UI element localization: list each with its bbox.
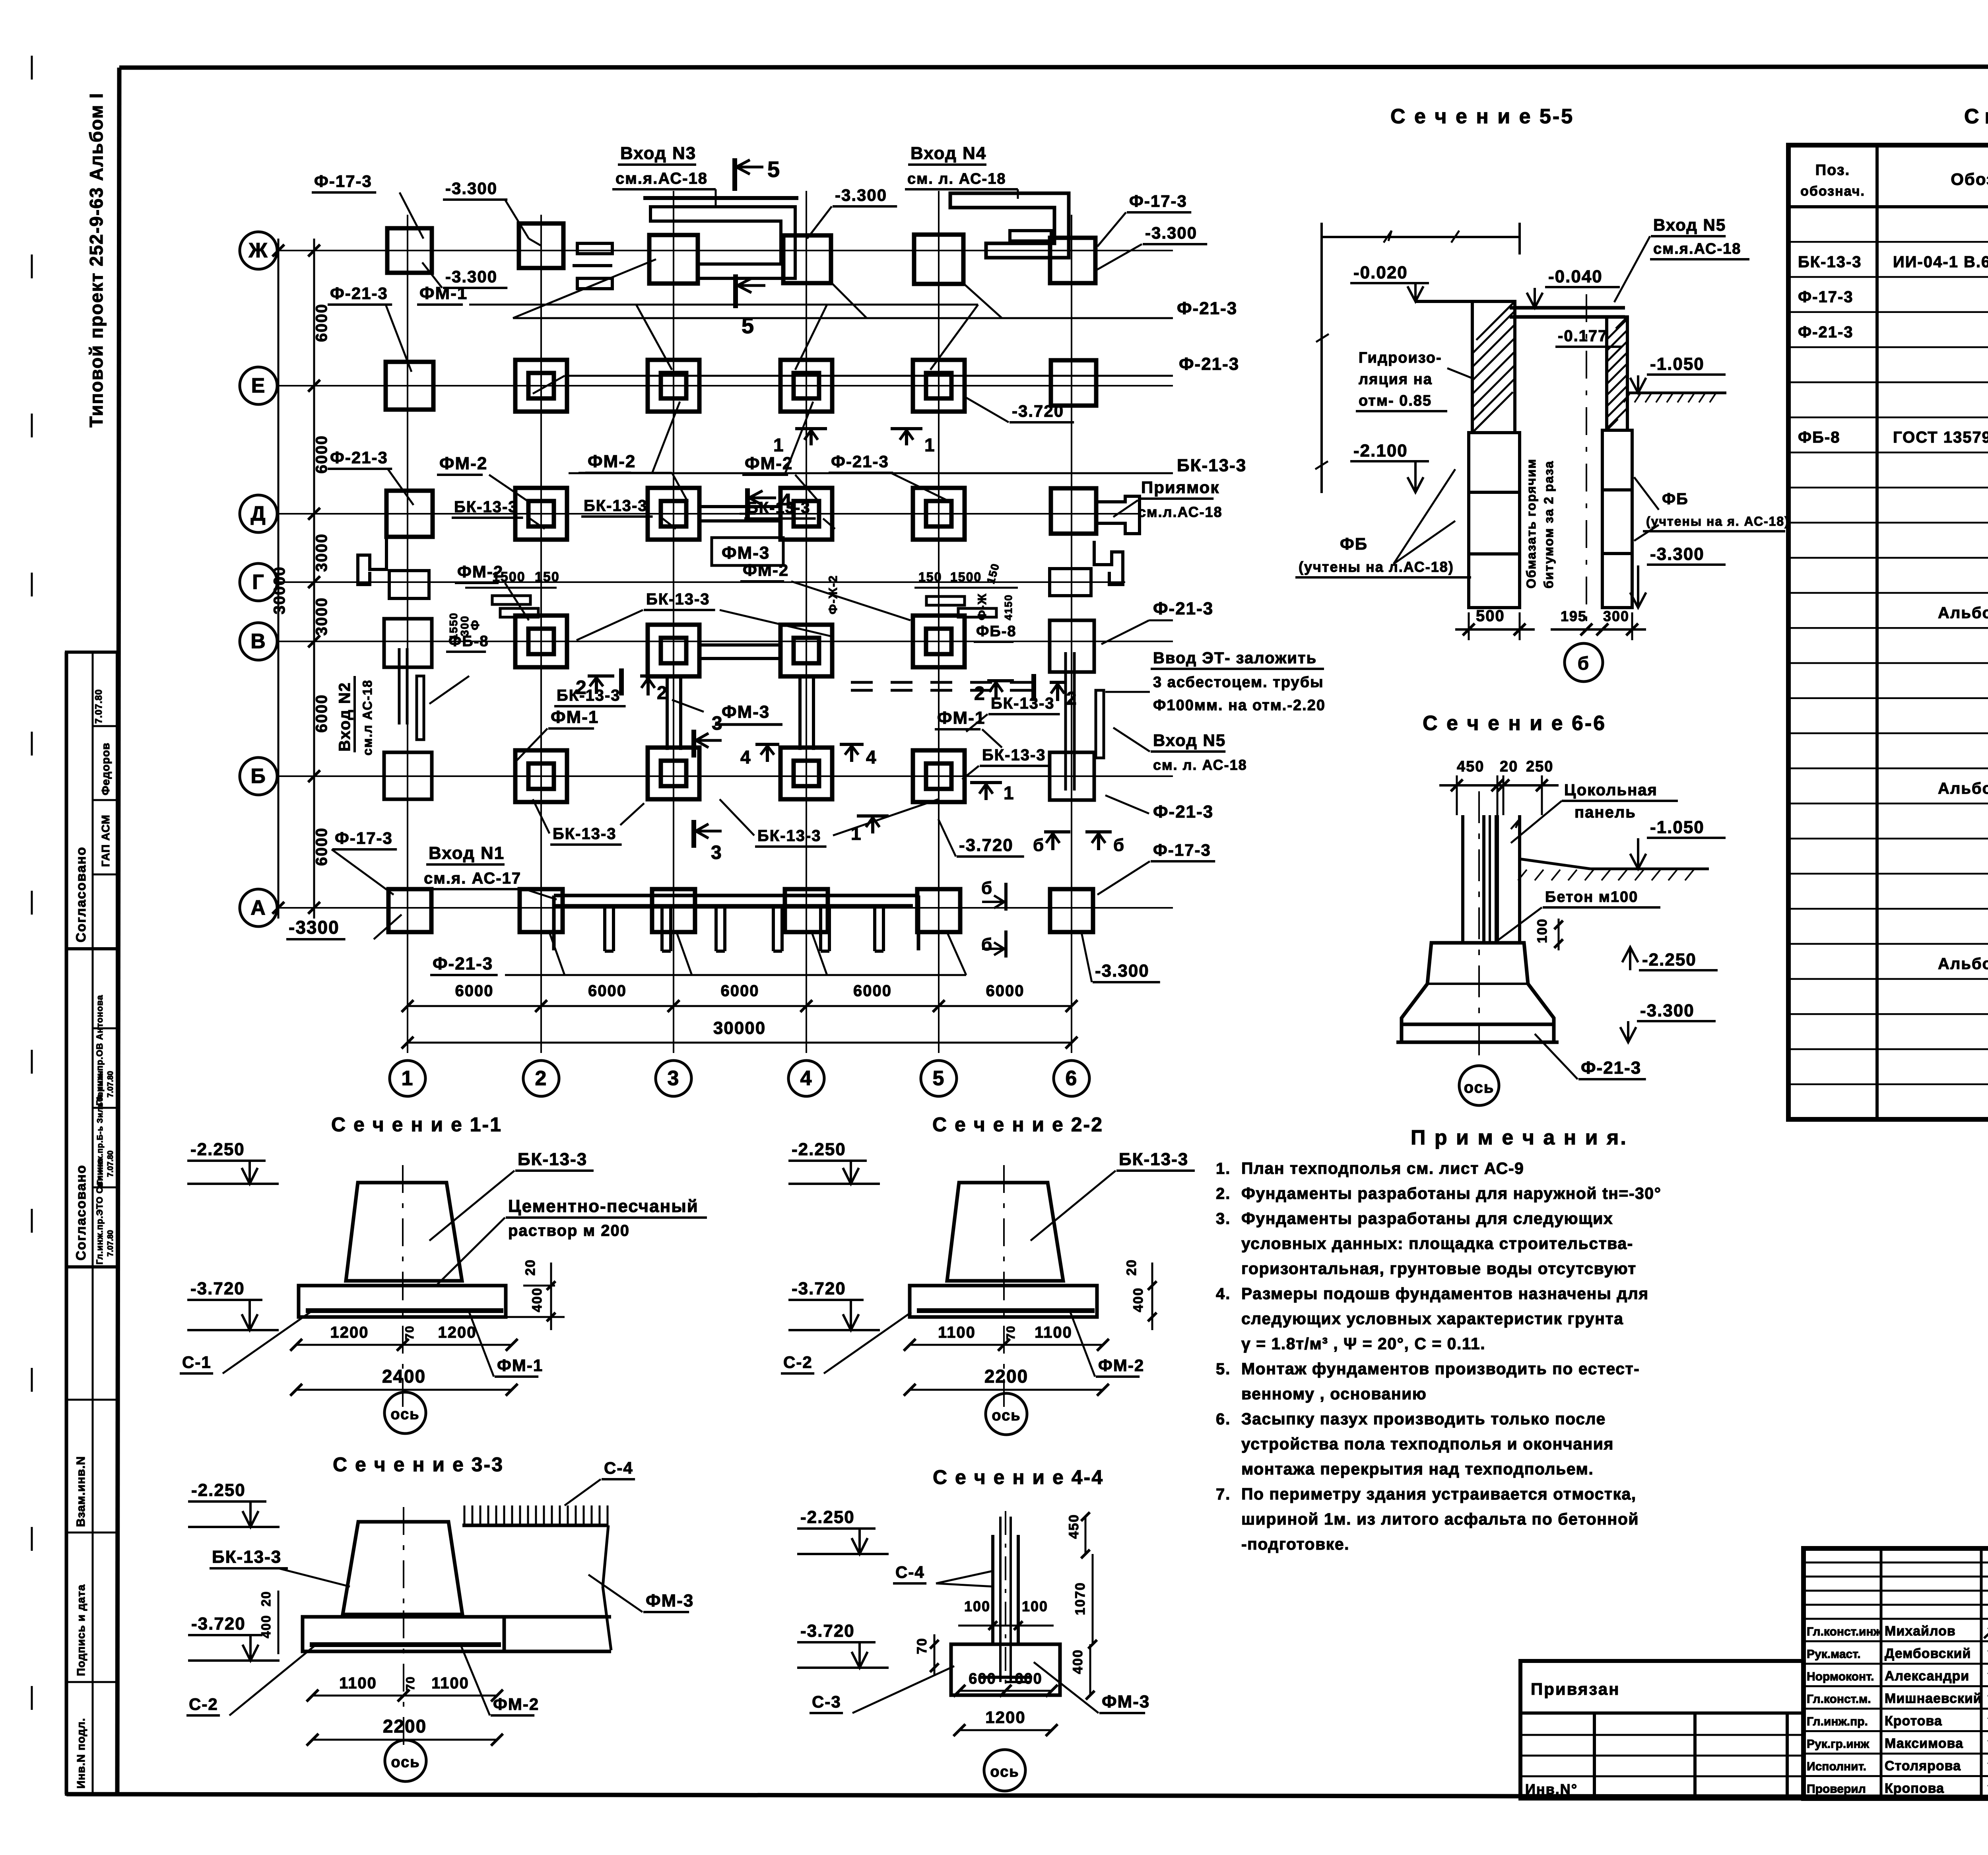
svg-text:С-1: С-1: [182, 1353, 212, 1371]
section 5-5 right wall blocks: [1602, 430, 1632, 608]
section 5-5 left wall hatched: [1472, 301, 1515, 433]
svg-text:ГОСТ 13579-78: ГОСТ 13579-78: [1893, 429, 1988, 446]
svg-text:см. л. АС-18: см. л. АС-18: [907, 171, 1006, 187]
svg-text:Кротова: Кротова: [1885, 1713, 1942, 1729]
svg-text:-2.250: -2.250: [191, 1480, 246, 1500]
entrance footing at 6/Б: [1050, 752, 1094, 800]
svg-text:Инв.N°: Инв.N°: [1525, 1781, 1578, 1797]
svg-text:условных данных: площадка стро: условных данных: площадка строительства-: [1241, 1234, 1633, 1253]
bottom total dimension 30000: [402, 1018, 1077, 1049]
svg-text:-3.300: -3.300: [1145, 223, 1197, 242]
section 2-2 level -2.250: [788, 1140, 880, 1184]
svg-text:Ф-21-3: Ф-21-3: [1177, 299, 1237, 318]
notes title Примечания: [1411, 1126, 1628, 1149]
boxed label ФМ-3 upper: [712, 538, 783, 565]
footing Ф-21-3 row А: [1050, 889, 1093, 932]
axis circle 4: [788, 1061, 824, 1096]
svg-text:Инв.N подл.: Инв.N подл.: [75, 1718, 87, 1789]
section 1-1 axis circle: [384, 1392, 426, 1433]
svg-text:ляция на: ляция на: [1359, 371, 1433, 388]
label Цокольная панель: [1511, 781, 1678, 843]
svg-text:-1.050: -1.050: [1650, 354, 1705, 374]
svg-text:450: 450: [1457, 758, 1484, 775]
label ФМ-1 left row Б: [517, 707, 599, 760]
svg-text:1200: 1200: [438, 1324, 477, 1341]
entrance footing at 6/В: [1050, 620, 1104, 791]
section 1-1 right small dims 20 400: [507, 1259, 565, 1330]
label Вход N5 см.л.АС-18 top right: [1614, 216, 1749, 302]
svg-text:По периметру здания устраивает: По периметру здания устраивается отмостк…: [1241, 1485, 1637, 1503]
label Инв.N: [1525, 1781, 1578, 1797]
label БК-13-3 b: [581, 497, 676, 529]
label -3.720 bottom: [938, 819, 1024, 857]
label Гидроизоляция: [1356, 350, 1471, 411]
section 6-6 top dims 450 20 250: [1439, 758, 1559, 815]
monolithic footing ФМ-1 row Е: [780, 360, 832, 412]
svg-text:Столярова: Столярова: [1885, 1758, 1961, 1773]
svg-text:Ф-21-3: Ф-21-3: [1179, 354, 1239, 374]
svg-text:1100: 1100: [1035, 1324, 1072, 1341]
label -2.100: [1350, 441, 1429, 492]
section 6-6 wall panel: [1463, 815, 1520, 944]
svg-text:С-4: С-4: [895, 1563, 925, 1581]
svg-text:Обозначение: Обозначение: [1951, 170, 1988, 188]
section 4-4 dim 1200: [953, 1708, 1058, 1736]
svg-text:Вход N3: Вход N3: [620, 144, 696, 163]
section 1-1 footing slab ФМ-1: [299, 1272, 506, 1416]
title block signature grid: [1804, 1548, 1988, 1799]
svg-text:Спецификация элементов: Спецификация элементов: [1964, 105, 1988, 128]
section 3-3 label С-2: [186, 1646, 314, 1715]
label Вход N5 right: [1113, 728, 1247, 773]
svg-text:-3.720: -3.720: [792, 1279, 846, 1298]
section cut mark 5 lower: [736, 274, 765, 338]
section 1-1 level -3.720: [187, 1279, 279, 1330]
rotated small label Ф-Ж-2 near col5: [976, 593, 989, 620]
label БК-13-3 under right mark 2: [0, 0, 0, 0]
svg-text:Цементно-песчаный: Цементно-песчаный: [508, 1197, 699, 1216]
svg-text:ФМ-3: ФМ-3: [722, 702, 770, 722]
monolithic footing ФМ-1 row Е: [648, 360, 699, 412]
electric duct dashed line Ввод ЭТ: [851, 682, 1046, 690]
label -3.300 section5: [1630, 544, 1726, 608]
svg-text:БК-13-3: БК-13-3: [646, 590, 710, 608]
section 3-3 label С-4: [565, 1459, 635, 1505]
section 5-5 title: [1390, 105, 1574, 128]
svg-text:Взам.инв.N: Взам.инв.N: [74, 1456, 87, 1527]
section 4-4 dims 100 100: [958, 1598, 1054, 1630]
svg-text:150: 150: [535, 569, 560, 585]
svg-text:С е ч е н и е 3-3: С е ч е н и е 3-3: [333, 1453, 504, 1476]
label Привязан: [1531, 1680, 1620, 1698]
svg-text:Приямок: Приямок: [1141, 478, 1219, 497]
svg-text:20: 20: [259, 1591, 273, 1606]
label БК-13-3 under ФМ-1 left: [533, 799, 644, 845]
svg-text:ФМ-2: ФМ-2: [493, 1695, 539, 1713]
svg-text:1.: 1.: [1216, 1160, 1231, 1177]
section marks б bottom: [1033, 832, 1125, 855]
svg-text:1100: 1100: [938, 1324, 976, 1341]
svg-text:Бетон м100: Бетон м100: [1545, 889, 1638, 905]
svg-text:б: б: [1113, 835, 1125, 855]
section 2-2 title: [932, 1113, 1103, 1136]
svg-text:-3.720: -3.720: [800, 1621, 855, 1641]
svg-text:б: б: [1578, 653, 1590, 674]
svg-text:следующих условных характерист: следующих условных характеристик грунта: [1241, 1309, 1623, 1328]
entrance Вход N4 stair outline: [950, 193, 1069, 258]
label Ф-21-3 band1: [328, 448, 414, 505]
monolithic footing at 2/В: [515, 616, 567, 667]
svg-text:-3.720: -3.720: [190, 1279, 245, 1298]
label БК-13-3 under mark 2: [554, 687, 626, 706]
svg-text:ФМ-2: ФМ-2: [1098, 1356, 1144, 1375]
svg-text:1100: 1100: [339, 1674, 377, 1692]
section 5-5 ground line right: [1624, 393, 1726, 402]
footing at 6/Е: [1051, 360, 1096, 406]
footing at 5/Ж left: [914, 235, 963, 284]
svg-text:Размеры подошв фундаментов наз: Размеры подошв фундаментов назначены для: [1241, 1284, 1649, 1303]
monolithic footing ФМ-2 at 5/Д: [913, 488, 965, 540]
svg-text:1200: 1200: [330, 1324, 369, 1341]
svg-text:-0.040: -0.040: [1548, 267, 1603, 286]
entrance Вход N1 comb outline: [554, 895, 918, 951]
svg-text:3 асбестоцем. трубы: 3 асбестоцем. трубы: [1153, 674, 1324, 691]
label Вход N2 см.л АС-18 (rotated): [336, 676, 375, 756]
section 4-4 dim 70 rotated: [914, 1634, 939, 1676]
svg-text:5.: 5.: [1216, 1360, 1231, 1378]
section 4-4 label С-4: [893, 1563, 994, 1587]
plan column grid lines 1-6: [408, 191, 1072, 1053]
svg-text:Ф-21-3: Ф-21-3: [1153, 802, 1213, 822]
svg-text:-2.250: -2.250: [1642, 950, 1697, 969]
section mark 4 upper: [747, 488, 792, 521]
svg-text:Рук.маст.: Рук.маст.: [1807, 1648, 1861, 1661]
specification table frame: [1788, 145, 1988, 1119]
section 6-6 axis circle: [1459, 1066, 1499, 1105]
svg-text:4: 4: [866, 747, 877, 767]
svg-text:ось: ось: [390, 1406, 419, 1423]
axis circle Д: [240, 495, 277, 532]
svg-text:2.: 2.: [1216, 1185, 1231, 1202]
svg-text:5: 5: [742, 313, 755, 338]
svg-text:венному , основанию: венному , основанию: [1241, 1385, 1427, 1403]
svg-text:400: 400: [530, 1287, 545, 1312]
section 1-1 title: [331, 1113, 502, 1136]
svg-text:Ф-17-3: Ф-17-3: [1153, 841, 1211, 859]
svg-text:ФМ-2: ФМ-2: [457, 562, 503, 581]
section 5-5 left vertical dim line: [1315, 237, 1329, 493]
svg-text:Исполнит.: Исполнит.: [1807, 1760, 1866, 1773]
svg-text:б: б: [1033, 835, 1044, 855]
svg-text:БК-13-3: БК-13-3: [1119, 1150, 1188, 1169]
label Приямок см.л.АС-18: [1113, 478, 1223, 523]
svg-text:устройства пола техподполья и: устройства пола техподполья и окончания: [1241, 1435, 1614, 1453]
label -3.300 below 1/Ж: [422, 262, 507, 288]
svg-text:ФМ-3: ФМ-3: [1102, 1692, 1150, 1711]
specification table header texts: [1800, 162, 1988, 199]
label ФМ-2 b: [579, 452, 688, 502]
section 1-1 label С-1: [180, 1312, 310, 1373]
svg-text:70: 70: [914, 1637, 930, 1654]
svg-text:Согласовано: Согласовано: [74, 1165, 89, 1261]
specification table title: [1964, 105, 1988, 128]
svg-text:ФМ-1: ФМ-1: [497, 1356, 543, 1375]
svg-text:Вход N5: Вход N5: [1153, 731, 1226, 750]
svg-text:2: 2: [1066, 688, 1077, 709]
section 1-1 label Цементно-песчаный раствор: [437, 1197, 707, 1284]
svg-text:Федоров: Федоров: [99, 742, 112, 795]
svg-text:-2.250: -2.250: [800, 1507, 855, 1527]
svg-text:6000: 6000: [588, 982, 627, 1000]
svg-text:-3.300: -3.300: [445, 267, 497, 286]
left dimension line 6000/6000/3000/3000/6000/6000: [271, 239, 330, 919]
svg-text:см.я.АС-18: см.я.АС-18: [615, 170, 708, 187]
svg-text:4: 4: [800, 1067, 813, 1090]
label -3300 left bottom: [286, 915, 402, 939]
title block outer frame: [1804, 1548, 1988, 1799]
section 2-2 label С-2: [781, 1312, 911, 1373]
blocks ФБ-8 left: [447, 569, 560, 640]
svg-text:7.07.80: 7.07.80: [106, 1071, 115, 1097]
section marks 4 bottom pair: [740, 744, 877, 767]
svg-text:-3.300: -3.300: [1650, 544, 1705, 564]
svg-text:3: 3: [711, 842, 722, 863]
svg-text:ось: ось: [391, 1754, 420, 1771]
label БК-13-3 right long leader: [569, 402, 1246, 475]
label БК-13-3 band2 right: [966, 695, 1060, 732]
monolithic footing ФМ-2 at 2/Д: [515, 488, 567, 540]
label -3.720 near 5/Е: [966, 398, 1074, 422]
svg-text:100: 100: [1022, 1598, 1048, 1614]
section mark 2 right pair: [974, 674, 1077, 709]
axis circle 1: [390, 1061, 425, 1096]
svg-text:2200: 2200: [383, 1716, 427, 1737]
svg-text:3: 3: [668, 1067, 680, 1090]
svg-text:(учтены на л.АС-18): (учтены на л.АС-18): [1299, 559, 1454, 575]
svg-text:400: 400: [259, 1615, 273, 1638]
monolithic footing ФМ-2 at 4/Д: [780, 488, 832, 540]
svg-text:раствор м 200: раствор м 200: [508, 1222, 630, 1239]
rotated small label Ф-Ж-2 near col3: [827, 575, 840, 614]
label БК-13-3 right row Б: [962, 746, 1051, 779]
label -3.300 top-left: [443, 179, 541, 246]
label -0.177: [1555, 327, 1622, 347]
label ФМ-1 with long leader row Е: [417, 284, 978, 370]
svg-text:4: 4: [740, 747, 751, 767]
svg-text:Дембовский: Дембовский: [1885, 1646, 1971, 1661]
svg-text:Вход N5: Вход N5: [1653, 216, 1726, 234]
svg-text:С-2: С-2: [189, 1695, 218, 1713]
svg-text:Гидроизо-: Гидроизо-: [1359, 350, 1442, 366]
label Ф-17-3 bottom right: [1097, 841, 1215, 895]
label ФБ-8 right: [974, 623, 1017, 642]
label ФМ-2 a: [437, 454, 529, 502]
label Вход N4 см.л.АС-18: [905, 144, 1018, 199]
svg-text:Ф-21-3: Ф-21-3: [433, 954, 493, 973]
svg-text:панель: панель: [1574, 804, 1636, 821]
svg-text:6000: 6000: [455, 982, 494, 1000]
label БК-13-3 mid bottom: [720, 799, 938, 847]
svg-text:см.я.АС-18: см.я.АС-18: [1653, 241, 1741, 257]
svg-text:-3.300: -3.300: [1095, 961, 1149, 981]
svg-text:ФМ-2: ФМ-2: [439, 454, 487, 473]
axis circle 5: [921, 1061, 957, 1096]
section 4-4 dim 450 rotated: [1066, 1512, 1097, 1558]
svg-text:4150: 4150: [1002, 594, 1014, 620]
footing Ф-17-3 at 1/Ж: [387, 228, 432, 273]
svg-text:Рук.гр.инж: Рук.гр.инж: [1807, 1738, 1870, 1751]
axis circle В: [240, 623, 277, 660]
svg-text:ФМ-3: ФМ-3: [646, 1591, 694, 1610]
section 6-6 pedestal: [1396, 943, 1559, 1042]
label Бетон м100: [1495, 889, 1660, 942]
axis circle Ж: [240, 232, 277, 269]
label -3.300 mid top: [807, 186, 897, 239]
label ФМ-2 c: [742, 454, 819, 502]
svg-text:-1.050: -1.050: [1650, 818, 1705, 837]
footing Ф-21-3 row А: [520, 889, 563, 932]
label Вход N3 см.л.АС-18: [612, 144, 716, 207]
svg-text:-3.720: -3.720: [1012, 402, 1064, 420]
section 5-5 axis dashed: [1586, 294, 1587, 628]
section 1-1 level -2.250: [187, 1140, 279, 1184]
section 4-4 dim 400 rotated: [1070, 1644, 1095, 1700]
axis circle Б: [240, 758, 277, 795]
svg-text:Мишнаевский: Мишнаевский: [1885, 1691, 1982, 1706]
section 1-1 label БК-13-3: [429, 1150, 594, 1241]
svg-text:3.: 3.: [1216, 1210, 1231, 1228]
beam ФМ-3 between 3/Д and 4/Д: [700, 507, 780, 521]
svg-text:С е ч е н и е 6-6: С е ч е н и е 6-6: [1423, 712, 1606, 735]
label Вход N1 см.л.АС-17: [421, 843, 557, 899]
section 4-4 dim 600 600: [953, 1670, 1058, 1697]
link bar 3/В-4/В: [701, 645, 779, 658]
title block Привязан table: [1520, 1661, 1804, 1799]
svg-text:ось: ось: [992, 1407, 1021, 1424]
svg-text:2: 2: [974, 683, 986, 704]
svg-text:Альбом V Р.9.8-1: Альбом V Р.9.8-1: [1938, 955, 1988, 973]
svg-text:6000: 6000: [313, 303, 330, 342]
footing Ф-21-3 row А: [652, 889, 695, 932]
svg-text:20: 20: [523, 1259, 538, 1276]
svg-text:С-2: С-2: [783, 1353, 813, 1371]
svg-text:обознач.: обознач.: [1800, 184, 1865, 199]
svg-text:-3.300: -3.300: [835, 186, 887, 204]
svg-text:БК-13-3: БК-13-3: [518, 1150, 587, 1169]
label -0.040: [1527, 267, 1620, 308]
svg-text:6000: 6000: [313, 827, 330, 866]
svg-text:5: 5: [767, 157, 780, 182]
svg-text:Кропова: Кропова: [1885, 1781, 1944, 1796]
axis circle А: [240, 889, 277, 927]
svg-text:-3.720: -3.720: [959, 835, 1013, 855]
svg-text:-2.250: -2.250: [792, 1140, 846, 1159]
footing Ф-21-3 row А: [785, 889, 828, 932]
left stamp box 3 (Взам.инв / Подпись и дата / Инв.N подл.): [66, 1267, 117, 1794]
label Ф-21-3 band1 right: [829, 452, 950, 502]
svg-text:С е ч е н и е 1-1: С е ч е н и е 1-1: [331, 1113, 502, 1136]
footing at 1/Д: [386, 491, 433, 537]
svg-text:БК-13-3: БК-13-3: [1798, 253, 1862, 271]
svg-text:2: 2: [657, 682, 668, 703]
svg-text:500: 500: [1476, 607, 1505, 625]
label -1.050: [1630, 354, 1726, 393]
svg-text:Фундаменты разработаны для нар: Фундаменты разработаны для наружной tн=-…: [1241, 1184, 1662, 1202]
svg-text:-3.720: -3.720: [191, 1614, 246, 1634]
section 5-5 slab right -0.040: [1510, 308, 1625, 317]
label Обмазать горячим битумом (rotated): [1524, 453, 1556, 589]
svg-text:Вход N1: Вход N1: [429, 843, 505, 863]
svg-text:Привязан: Привязан: [1531, 1680, 1620, 1698]
svg-text:6: 6: [1066, 1067, 1078, 1090]
svg-text:ФМ-1: ФМ-1: [419, 284, 468, 303]
strip ФМ-3 left vertical: [667, 677, 681, 750]
svg-text:Ф-21-3: Ф-21-3: [330, 448, 388, 467]
section 3-3 level -3.720: [188, 1614, 280, 1661]
svg-text:Проверил: Проверил: [1807, 1783, 1866, 1796]
label Ввод ЭТ multiline right: [1105, 649, 1326, 714]
footing hook at 6/Г: [1050, 541, 1123, 596]
section 3-3 level -2.250: [188, 1480, 280, 1527]
svg-text:1100: 1100: [431, 1674, 469, 1692]
svg-text:3000: 3000: [313, 533, 330, 572]
section 2-2 column trapezoid: [947, 1165, 1063, 1281]
svg-text:450: 450: [1066, 1514, 1081, 1539]
svg-text:Ф-17-3: Ф-17-3: [1798, 288, 1854, 306]
label Ф-17-3 top-right: [1097, 192, 1191, 247]
svg-text:Вход N2: Вход N2: [336, 682, 353, 752]
footing at 6/Ж: [1050, 238, 1095, 283]
svg-text:монтажа перекрытия над техподп: монтажа перекрытия над техподпольем.: [1241, 1460, 1594, 1478]
svg-text:Засыпку пазух производить толь: Засыпку пазух производить только после: [1241, 1410, 1606, 1428]
svg-text:1: 1: [1004, 783, 1015, 803]
footing Ф-21-3 row А: [917, 889, 960, 932]
svg-text:100: 100: [964, 1598, 990, 1614]
svg-text:Монтаж фундаментов производить: Монтаж фундаментов производить по естест…: [1241, 1360, 1640, 1378]
svg-text:БК-13-3: БК-13-3: [757, 827, 821, 845]
svg-text:С-4: С-4: [604, 1459, 633, 1477]
svg-text:Ф-21-3: Ф-21-3: [1581, 1058, 1641, 1078]
specification table body texts: [1798, 217, 1988, 1078]
sheet trim dashed mark left: [31, 56, 33, 1789]
monolithic footing ФМ-1 row Б: [648, 748, 699, 799]
svg-text:250: 250: [1526, 758, 1553, 775]
svg-text:70: 70: [1004, 1325, 1017, 1340]
left stamp box 1 (Согласовано): [66, 652, 117, 949]
svg-text:-0.177: -0.177: [1558, 327, 1607, 345]
svg-text:Альбом V Р.9.8-1: Альбом V Р.9.8-1: [1938, 604, 1988, 622]
label Ф-17-3 top-left: [312, 172, 423, 239]
svg-text:70: 70: [404, 1676, 417, 1691]
svg-text:Александри: Александри: [1885, 1669, 1969, 1684]
svg-text:Альбом V Р.9.8-1: Альбом V Р.9.8-1: [1938, 780, 1988, 797]
strip ФМ-3 right vertical: [800, 677, 813, 750]
section mark б arrow right upper: [981, 878, 1006, 911]
svg-text:(учтены на я. АС-18): (учтены на я. АС-18): [1646, 514, 1790, 528]
section 1-1 dim 1200 1200: [290, 1324, 518, 1351]
svg-text:7.07.80: 7.07.80: [93, 689, 104, 724]
svg-text:3: 3: [712, 713, 723, 734]
svg-text:Ф-21-3: Ф-21-3: [1798, 323, 1854, 341]
section 6-6 axis line: [1478, 791, 1480, 1058]
section 2-2 axis circle: [986, 1393, 1027, 1435]
section 4-4 title: [933, 1466, 1104, 1488]
svg-text:300: 300: [1603, 608, 1629, 624]
svg-text:БК-13-3: БК-13-3: [454, 498, 518, 516]
svg-text:БК-13-3: БК-13-3: [584, 497, 648, 515]
label ФБ учтены на л.АС-18 left: [1295, 469, 1471, 577]
svg-text:Поз.: Поз.: [1815, 162, 1850, 179]
